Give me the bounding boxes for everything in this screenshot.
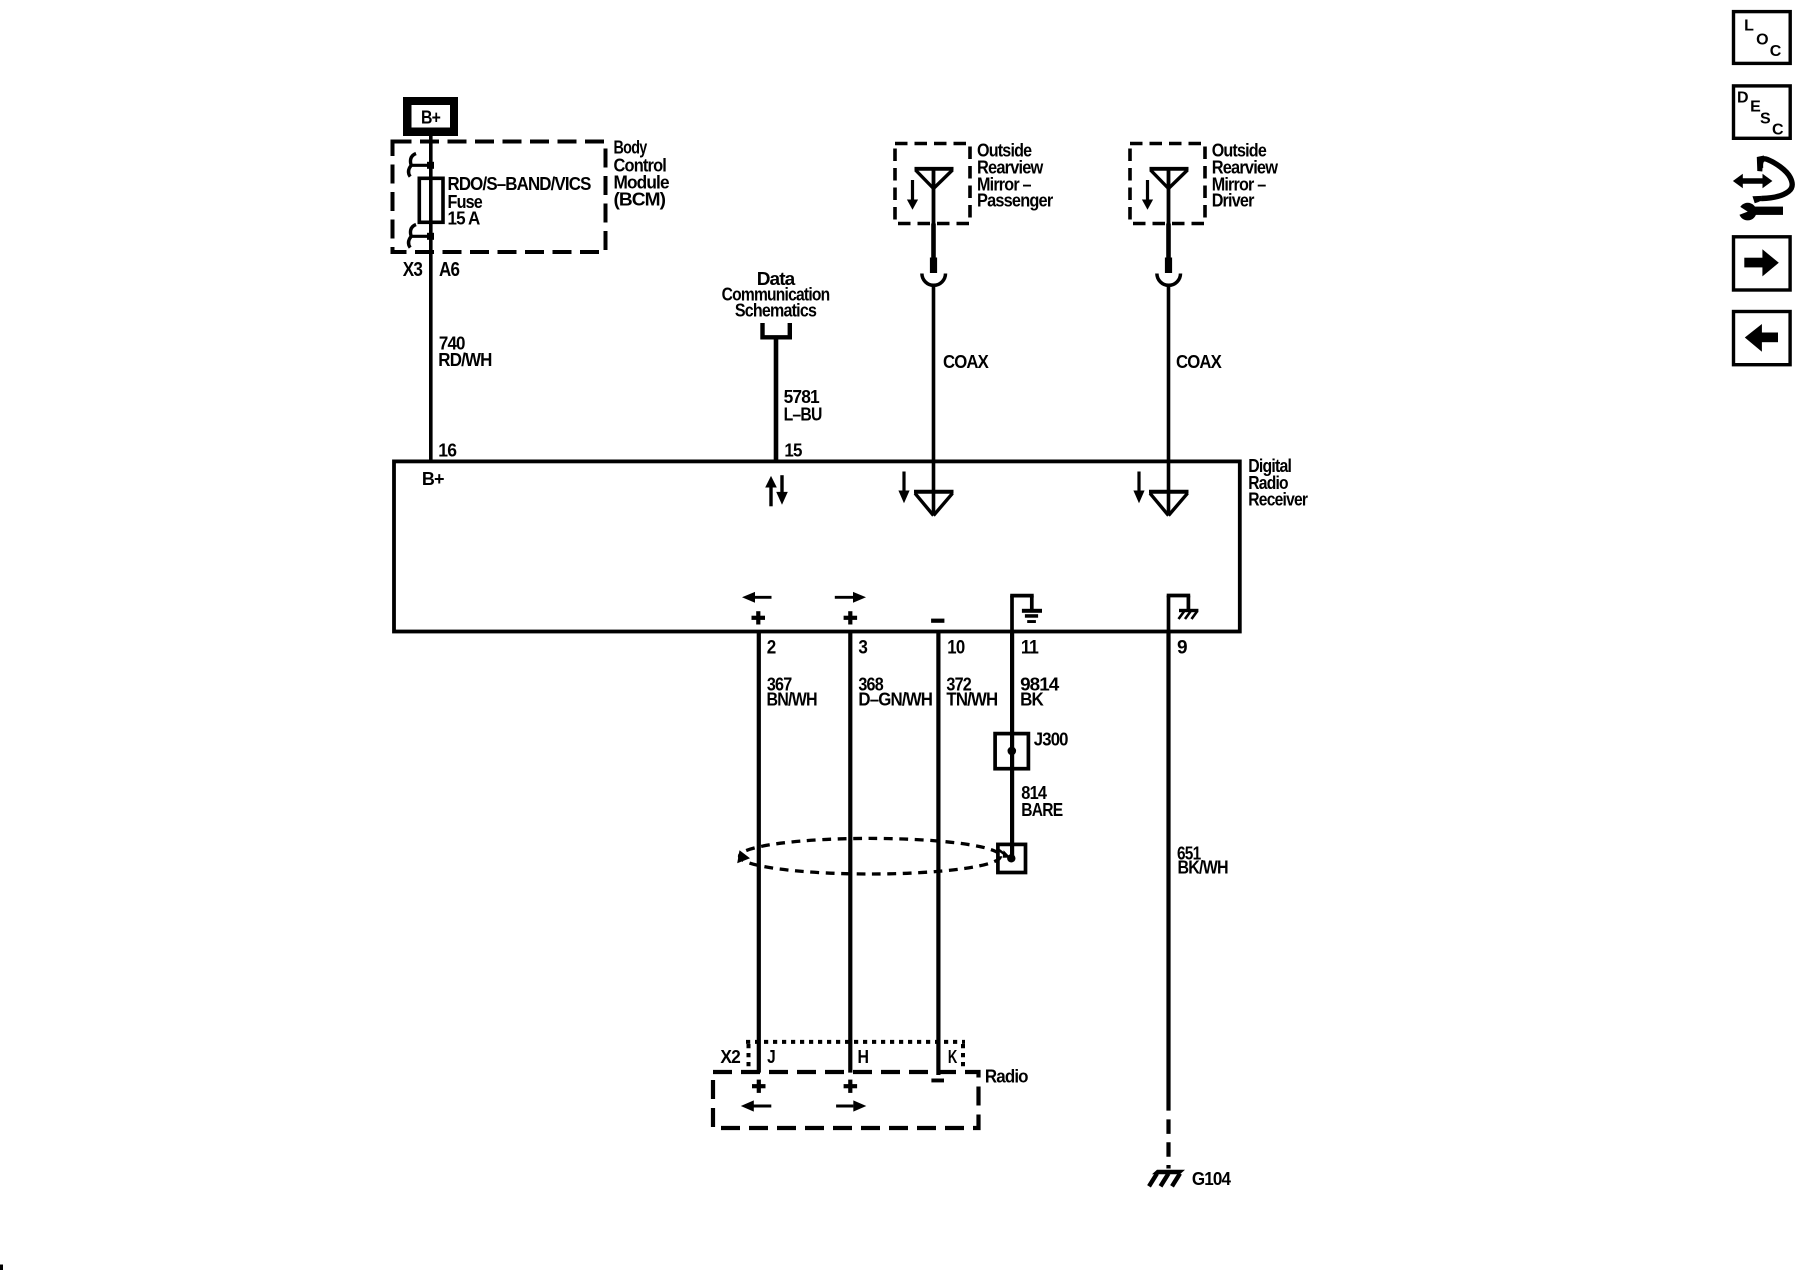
wire 367 BN/WH pin 2 to radio J xyxy=(757,631,761,1072)
down arrow driver mirror xyxy=(1142,180,1153,210)
connector pin hook top (BCM internal connection) xyxy=(408,154,428,177)
svg-text:S: S xyxy=(1760,111,1771,128)
svg-text:(BCM): (BCM) xyxy=(614,189,666,209)
svg-text:C: C xyxy=(1770,43,1782,60)
shield ellipse (cable shield drain) xyxy=(740,838,1001,874)
sidebar icon DESC xyxy=(1734,86,1791,139)
label Outside Rearview Mirror - Passenger xyxy=(977,140,1053,210)
svg-text:A6: A6 xyxy=(439,259,460,281)
svg-text:10: 10 xyxy=(947,637,965,659)
connector pin hook bottom (BCM internal connection) xyxy=(408,225,428,248)
plus sign pin 2 xyxy=(752,611,766,624)
module Outside Rearview Mirror - Passenger dashed box xyxy=(895,144,970,224)
down arrow passenger mirror xyxy=(907,180,918,210)
svg-text:15 A: 15 A xyxy=(448,209,481,229)
svg-text:RD/WH: RD/WH xyxy=(438,350,491,370)
label 814 BARE xyxy=(1021,783,1063,820)
svg-text:Driver: Driver xyxy=(1212,191,1255,211)
wire 372 TN/WH pin 10 to radio K xyxy=(936,631,940,1075)
label Body Control Module (BCM) xyxy=(614,138,670,210)
svg-text:D: D xyxy=(1737,89,1748,106)
plus sign pin 3 xyxy=(844,611,858,624)
splice J300 xyxy=(995,734,1028,769)
label Digital Radio Receiver xyxy=(1248,456,1308,510)
node: data communication schematics off-page connector xyxy=(763,323,790,337)
svg-text:9: 9 xyxy=(1177,637,1188,659)
wire COAX passenger xyxy=(932,286,936,464)
shield ellipse arrowhead left xyxy=(737,850,750,863)
svg-text:TN/WH: TN/WH xyxy=(946,689,997,709)
svg-text:BN/WH: BN/WH xyxy=(767,689,817,709)
minus sign pin 10 xyxy=(931,619,944,623)
module Body Control Module (BCM) dashed box xyxy=(393,142,606,253)
label Outside Rearview Mirror - Driver xyxy=(1212,140,1279,210)
antenna symbol inside receiver (driver input) xyxy=(1149,463,1189,516)
wire COAX driver xyxy=(1167,286,1171,464)
label 740 RD/WH xyxy=(438,334,491,370)
svg-text:16: 16 xyxy=(438,439,456,460)
svg-text:BARE: BARE xyxy=(1021,800,1063,820)
svg-text:Radio: Radio xyxy=(985,1066,1029,1086)
wire 9814 BK pin 11 to splice J300 xyxy=(1010,631,1014,858)
audio right output arrow pin 3 xyxy=(835,592,866,603)
minus sign radio K xyxy=(931,1079,944,1083)
svg-text:15: 15 xyxy=(784,439,802,460)
svg-text:BK/WH: BK/WH xyxy=(1178,858,1228,878)
wire B+ to BCM fuse (740 circuit feed) xyxy=(429,136,433,461)
antenna symbol driver mirror xyxy=(1150,167,1189,224)
svg-text:H: H xyxy=(858,1046,869,1067)
svg-text:B+: B+ xyxy=(422,469,444,489)
sidebar icon forward arrow xyxy=(1734,237,1791,290)
wire to G104 (dashed continuation) xyxy=(1166,1119,1170,1168)
module U1 Digital Radio Receiver box xyxy=(394,461,1240,631)
svg-text:G104: G104 xyxy=(1192,1169,1231,1189)
label RDO/S-BAND/VICS Fuse 15 A xyxy=(448,174,592,229)
audio left arrow radio xyxy=(741,1100,772,1111)
down arrow inside receiver (passenger antenna input) xyxy=(898,472,909,504)
svg-text:L–BU: L–BU xyxy=(784,404,822,424)
svg-text:L: L xyxy=(1744,18,1754,35)
svg-text:K: K xyxy=(948,1046,958,1067)
coax inline connector driver xyxy=(1157,224,1181,286)
coax inline connector passenger xyxy=(922,224,946,286)
svg-text:11: 11 xyxy=(1021,637,1039,659)
svg-text:Schematics: Schematics xyxy=(735,301,817,321)
ground G104 symbol xyxy=(1149,1170,1185,1187)
sidebar icon LOC xyxy=(1734,12,1791,64)
svg-text:D–GN/WH: D–GN/WH xyxy=(858,689,932,709)
power feed B+ box xyxy=(403,97,458,136)
junction dot bottom xyxy=(427,233,434,240)
svg-text:COAX: COAX xyxy=(1176,352,1222,372)
shield termination box xyxy=(998,844,1026,872)
plus sign radio H xyxy=(844,1080,858,1093)
wire 651 BK/WH pin 9 to G104 (solid) xyxy=(1166,631,1170,1110)
label 651 BK/WH xyxy=(1177,843,1228,877)
svg-text:2: 2 xyxy=(767,637,777,659)
label 367 BN/WH xyxy=(767,675,817,710)
label Data Communication Schematics xyxy=(722,269,830,321)
module Outside Rearview Mirror - Driver dashed box xyxy=(1130,144,1205,224)
svg-text:Receiver: Receiver xyxy=(1248,490,1308,510)
antenna symbol inside receiver (passenger input) xyxy=(914,463,954,516)
label 368 D-GN/WH xyxy=(858,675,932,710)
audio right arrow radio xyxy=(836,1100,866,1111)
label 9814 BK xyxy=(1020,675,1059,710)
sidebar icon back arrow xyxy=(1734,312,1791,365)
svg-text:BK: BK xyxy=(1020,689,1044,709)
stray mark bottom left xyxy=(0,1265,3,1271)
connector label X3 / A6 xyxy=(403,259,460,281)
bidirectional data arrows pin 15 xyxy=(765,475,788,506)
svg-text:Passenger: Passenger xyxy=(977,191,1053,211)
wire 368 D-GN/WH pin 3 to radio H xyxy=(848,631,852,1072)
down arrow inside receiver (driver antenna input) xyxy=(1133,472,1144,504)
chassis ground symbol pin 9 xyxy=(1167,596,1199,632)
audio left output arrow pin 2 xyxy=(742,592,772,603)
wire 5781 L-BU xyxy=(774,340,779,462)
label 5781 L-BU xyxy=(784,387,822,424)
svg-text:B+: B+ xyxy=(421,107,440,127)
svg-text:O: O xyxy=(1756,31,1768,48)
sidebar icon quick reference (double arrow + wrench) xyxy=(1733,156,1792,221)
svg-text:C: C xyxy=(1772,122,1784,139)
module Radio dashed box xyxy=(713,1072,979,1128)
svg-text:X3: X3 xyxy=(403,259,423,281)
svg-text:X2: X2 xyxy=(720,1046,740,1067)
connector X2 dotted strip xyxy=(746,1042,965,1070)
signal ground symbol pin 11 xyxy=(1010,596,1042,631)
label 372 TN/WH xyxy=(946,675,997,710)
fuse RDO/S-BAND/VICS 15 A xyxy=(419,178,443,222)
antenna symbol passenger mirror xyxy=(915,167,954,224)
svg-text:J300: J300 xyxy=(1034,730,1069,750)
svg-text:J: J xyxy=(767,1046,775,1067)
svg-text:3: 3 xyxy=(858,637,868,659)
junction dot top xyxy=(427,162,434,169)
svg-text:COAX: COAX xyxy=(943,352,989,372)
plus sign radio J xyxy=(752,1080,766,1093)
